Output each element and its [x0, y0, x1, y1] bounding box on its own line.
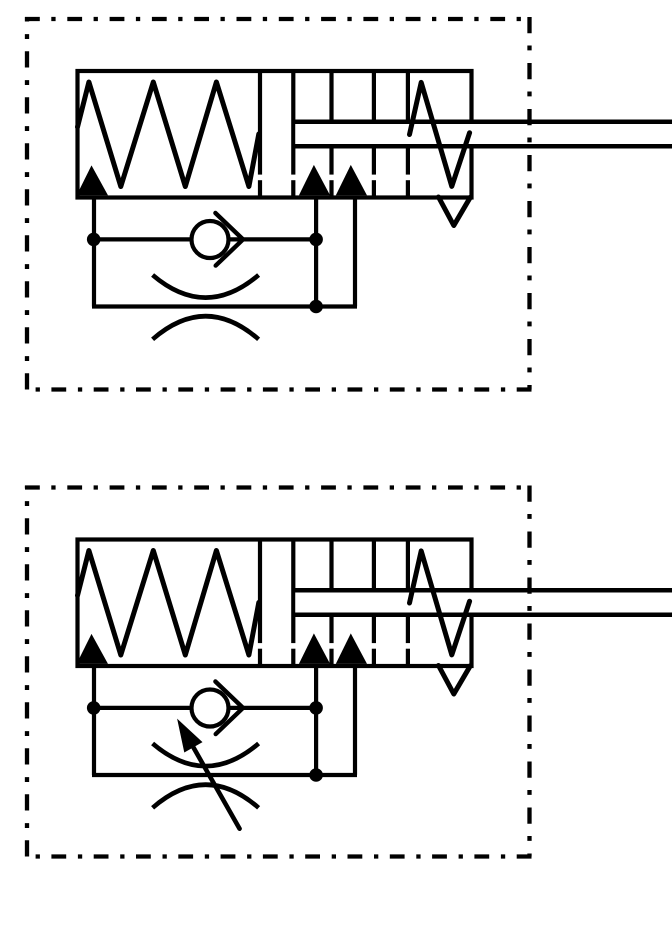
- barrel divider 3: [406, 71, 410, 198]
- white break marks on verticals: [256, 175, 412, 181]
- piston rod clearance (white): [295, 592, 672, 613]
- spring end V (below barrel): [439, 666, 471, 695]
- port arrow P2 (filled): [299, 633, 330, 664]
- junction dot D: [87, 701, 101, 715]
- cylinder C1 barrel: [78, 71, 472, 198]
- port arrow P2 (filled): [299, 165, 330, 196]
- wire: check-valve branch: [94, 237, 316, 241]
- barrel divider 1: [329, 540, 333, 667]
- throttle lower arc: [153, 785, 259, 808]
- port arrow P3 (filled): [336, 165, 367, 196]
- enclosure E1 (dash-dot boundary): [25, 17, 532, 390]
- wire: left port down-pipe: [92, 197, 96, 307]
- check valve V2: ball: [192, 690, 229, 727]
- barrel divider 2: [372, 540, 376, 667]
- return spring (left chamber): [78, 551, 259, 656]
- enclosure E2 (dash-dot boundary): [25, 486, 532, 857]
- junction dot E: [309, 701, 323, 715]
- junction dot B: [309, 233, 323, 247]
- piston rod (top line): [293, 120, 672, 125]
- return spring (left chamber): [78, 82, 259, 187]
- wire: left port down-pipe: [92, 666, 96, 776]
- piston (right face): [291, 540, 295, 667]
- wire: bottom throttle branch: [92, 304, 357, 308]
- throttle lower arc: [153, 316, 259, 339]
- barrel divider 1: [329, 71, 333, 198]
- piston rod clearance (white): [295, 124, 672, 145]
- piston (left face): [258, 71, 262, 198]
- cylinder C2 barrel: [78, 540, 472, 667]
- piston (right face): [291, 71, 295, 198]
- junction dot C: [309, 300, 323, 314]
- wire: P3 down-pipe: [353, 197, 357, 306]
- rod-side spring: [410, 82, 470, 186]
- wire: check-valve branch: [94, 706, 316, 710]
- throttle upper arc: [153, 275, 259, 298]
- variable-throttle arrow head (filled): [177, 719, 202, 753]
- spring end V (below barrel): [439, 197, 471, 226]
- check valve V1: ball: [192, 221, 229, 258]
- rod-side spring: [410, 551, 470, 655]
- port arrow P1 (left, filled): [77, 634, 108, 664]
- piston rod (bottom line): [293, 144, 672, 149]
- junction dot A: [87, 233, 101, 247]
- check valve V2: seat: [215, 682, 243, 735]
- junction dot F: [309, 768, 323, 782]
- piston rod (bottom line): [293, 613, 672, 618]
- throttle upper arc: [153, 744, 259, 767]
- check valve V1: seat: [215, 213, 243, 266]
- wire: bottom throttle branch: [92, 773, 357, 777]
- piston (left face): [258, 540, 262, 667]
- port arrow P1 (left, filled): [77, 165, 108, 195]
- wire: P2 down-pipe: [314, 197, 318, 307]
- wire: P2 down-pipe: [314, 666, 318, 776]
- variable-throttle arrow shaft: [182, 727, 240, 828]
- port arrow P3 (filled): [336, 633, 367, 664]
- barrel divider 3: [406, 540, 410, 667]
- barrel divider 2: [372, 71, 376, 198]
- wire: P3 down-pipe: [353, 666, 357, 775]
- piston rod (top line): [293, 588, 672, 593]
- white break marks on verticals: [256, 643, 412, 649]
